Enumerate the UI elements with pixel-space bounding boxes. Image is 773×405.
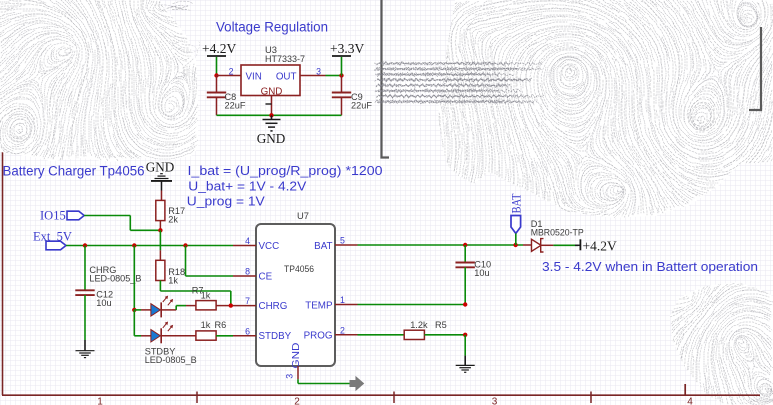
resistor R17 xyxy=(156,200,185,224)
svg-text:MBR0520-TP: MBR0520-TP xyxy=(531,227,584,237)
wire CHRG LED cathode jog to R7 xyxy=(161,309,176,311)
wire PROG to R5 xyxy=(358,334,405,336)
wire R6 to STDBY pin xyxy=(216,335,233,337)
node ground junction xyxy=(269,113,273,117)
wire GND pin to sheet arrow xyxy=(297,379,299,383)
svg-text:4: 4 xyxy=(245,236,250,246)
node CHRG junction xyxy=(229,303,233,307)
svg-text:CE: CE xyxy=(259,272,273,283)
svg-text:BAT: BAT xyxy=(510,193,524,213)
node C10 branch xyxy=(463,243,467,247)
svg-text:IO15: IO15 xyxy=(40,208,66,222)
capacitor C8 xyxy=(207,76,246,116)
svg-text:GND: GND xyxy=(257,131,286,146)
wire to CHRG LED anode xyxy=(134,309,141,311)
pin 6 STDBY stub xyxy=(233,326,256,336)
svg-text:3: 3 xyxy=(285,374,295,379)
node VIN junction xyxy=(214,73,218,77)
flag Ext_5V xyxy=(33,230,72,250)
power +3.3V xyxy=(330,41,364,56)
svg-text:I_bat = (U_prog/R_prog) *1200: I_bat = (U_prog/R_prog) *1200 xyxy=(188,164,383,178)
wire IO15 to R17 node xyxy=(84,215,130,217)
svg-text:STDBY: STDBY xyxy=(259,331,292,342)
svg-text:1k: 1k xyxy=(201,320,211,330)
svg-text:GND: GND xyxy=(146,159,175,174)
resistor R6 xyxy=(196,320,226,340)
LED D CHRG (LED-0805_B) xyxy=(151,296,173,318)
ground below C12 xyxy=(76,340,95,358)
svg-text:U7: U7 xyxy=(297,210,309,221)
node CE branch xyxy=(183,243,187,247)
svg-text:6: 6 xyxy=(245,326,250,336)
op-amp U1 pin 2 stub xyxy=(217,67,242,77)
svg-text:PROG: PROG xyxy=(304,330,333,341)
sheet border left xyxy=(2,0,4,395)
svg-text:VCC: VCC xyxy=(259,241,280,252)
pin stub R17 bottom xyxy=(159,221,161,231)
flag IO15 xyxy=(40,208,84,222)
sheet tick 3 xyxy=(590,392,592,404)
sheet border right tick xyxy=(684,384,686,395)
svg-text:3: 3 xyxy=(492,397,498,405)
pin 3 GND stub xyxy=(285,366,299,379)
wire +3.3V down xyxy=(341,57,343,76)
pin 5 BAT stub xyxy=(335,236,358,246)
node R17/R18 junction xyxy=(158,228,162,232)
pin 8 CE stub xyxy=(233,267,256,277)
svg-text:1.2k: 1.2k xyxy=(410,320,428,330)
pin 3 stub of U3 xyxy=(300,67,326,77)
node C12 branch xyxy=(83,243,87,247)
frame edge of obscured note box (right) xyxy=(749,27,761,110)
svg-text:OUT: OUT xyxy=(276,71,297,82)
svg-text:2: 2 xyxy=(340,325,345,335)
wire STDBY LED cathode to R6 xyxy=(161,335,196,337)
wire column down to ground xyxy=(464,335,466,356)
svg-text:CHRG: CHRG xyxy=(259,301,288,312)
capacitor C12 xyxy=(75,246,141,341)
diode D1 MBR0520-TP xyxy=(523,219,584,252)
svg-text:VIN: VIN xyxy=(246,71,262,82)
pin 7 CHRG stub xyxy=(233,296,256,306)
svg-text:2: 2 xyxy=(294,397,300,405)
wire R18 bottom to CHRG net xyxy=(159,281,161,292)
svg-text:1k: 1k xyxy=(201,291,211,301)
node PROG junction xyxy=(463,333,467,337)
ground below C10 column xyxy=(456,356,475,373)
svg-text:+4.2V: +4.2V xyxy=(583,239,617,254)
op-amp U7 TP4056 charger IC xyxy=(256,210,335,369)
wire ground rail of regulator xyxy=(217,114,342,116)
svg-text:TEMP: TEMP xyxy=(305,300,333,311)
wire R5 to GND column xyxy=(424,334,465,336)
wire D1 to +4.2V xyxy=(553,244,578,246)
node LED branch xyxy=(132,243,136,247)
svg-text:2k: 2k xyxy=(168,214,178,224)
sheet tick 1 xyxy=(196,392,198,404)
resistor R7 xyxy=(192,285,216,310)
svg-text:1k: 1k xyxy=(168,275,178,285)
svg-text:1: 1 xyxy=(340,295,345,305)
svg-text:5: 5 xyxy=(340,236,345,246)
ground arrow (sheet pin) xyxy=(350,377,364,390)
label STDBY LED xyxy=(145,346,197,365)
svg-text:R6: R6 xyxy=(215,320,227,330)
svg-text:LED-0805_B: LED-0805_B xyxy=(145,355,197,365)
svg-text:3: 3 xyxy=(316,67,321,77)
svg-text:+3.3V: +3.3V xyxy=(330,41,364,56)
svg-text:+4.2V: +4.2V xyxy=(202,41,236,56)
wire BAT net xyxy=(358,244,524,246)
sheet tick 2 xyxy=(393,392,395,404)
power +4.2V (battery rail) xyxy=(575,239,617,254)
power +4.2V (regulator input) xyxy=(202,41,236,56)
svg-text:4: 4 xyxy=(687,397,693,405)
svg-text:Voltage Regulation: Voltage Regulation xyxy=(216,19,328,34)
wire LED column down to STDBY row xyxy=(133,310,135,336)
wire Ext_5V rail xyxy=(66,245,233,247)
svg-text:22uF: 22uF xyxy=(351,101,372,111)
svg-text:1: 1 xyxy=(97,397,103,405)
capacitor C9 xyxy=(332,76,373,116)
sheet border bottom line xyxy=(2,394,760,396)
svg-text:TP4056: TP4056 xyxy=(284,263,314,274)
op-amp U3 regulator HT7333-7 xyxy=(241,44,305,97)
svg-text:2: 2 xyxy=(229,67,234,77)
LED CHRG xyxy=(133,246,135,310)
pin 2 PROG stub xyxy=(335,325,358,335)
wire R7 to CHRG pin xyxy=(216,305,231,307)
capacitor C10 xyxy=(456,245,492,305)
frame edge of obscured note box (left) xyxy=(382,0,390,158)
svg-text:22uF: 22uF xyxy=(225,101,246,111)
wire CE branch xyxy=(185,246,187,277)
node OUT junction xyxy=(339,73,343,77)
wire +4.2V to VIN node xyxy=(216,57,218,76)
svg-text:R5: R5 xyxy=(435,320,447,330)
svg-text:U_prog = 1V: U_prog = 1V xyxy=(187,195,266,209)
svg-text:10u: 10u xyxy=(96,298,111,308)
wire TEMP net xyxy=(358,304,466,306)
pin 1 TEMP stub xyxy=(335,295,358,305)
svg-text:BAT: BAT xyxy=(314,241,332,252)
node BAT flag junction xyxy=(513,243,517,247)
flag BAT xyxy=(510,193,524,245)
LED D STDBY (LED-0805_B) xyxy=(151,322,173,344)
pin 4 VCC stub xyxy=(233,236,256,246)
svg-text:7: 7 xyxy=(245,296,250,306)
ground GND above R17 (inverted) xyxy=(146,159,175,200)
svg-text:3.5 - 4.2V when in Battert ope: 3.5 - 4.2V when in Battert operation xyxy=(542,260,758,274)
svg-text:HT7333-7: HT7333-7 xyxy=(265,53,305,64)
pin GND stub of U3 xyxy=(271,96,273,116)
node LED CHRG junction xyxy=(132,308,136,312)
resistor R5 xyxy=(404,320,447,340)
resistor R18 xyxy=(156,250,185,285)
svg-text:Battery Charger Tp4056: Battery Charger Tp4056 xyxy=(3,163,145,178)
wire junction down across rail xyxy=(159,230,161,250)
ground GND below U3 xyxy=(257,115,286,146)
wire OUT to +3.3V node xyxy=(326,75,342,77)
svg-text:8: 8 xyxy=(245,267,250,277)
svg-text:U_bat+ = 1V - 4.2V: U_bat+ = 1V - 4.2V xyxy=(188,180,307,194)
node TEMP junction xyxy=(463,302,467,306)
svg-text:10u: 10u xyxy=(474,268,489,278)
svg-text:GND: GND xyxy=(291,343,302,369)
